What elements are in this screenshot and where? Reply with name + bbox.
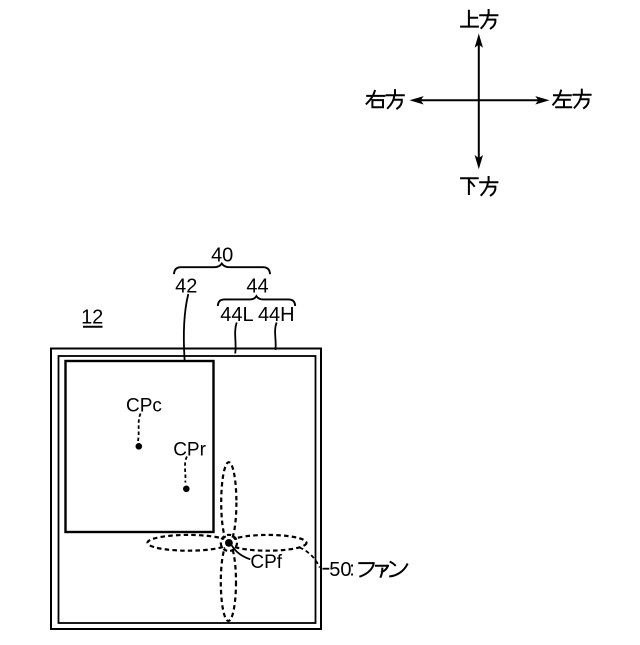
fan 50 petal left (dashed ellipse)	[148, 535, 229, 551]
svg-text:CPr: CPr	[173, 439, 206, 460]
fan 50 petal down (dashed ellipse)	[221, 543, 236, 621]
compass vertical arrow (up/down)	[475, 34, 483, 170]
leader CPf	[232, 545, 251, 559]
svg-text:CPf: CPf	[250, 552, 282, 573]
fan 50 petal right (dashed ellipse)	[229, 535, 307, 551]
label 左方 (left side, at right)	[553, 90, 590, 108]
svg-text::: :	[349, 558, 355, 580]
svg-text:42: 42	[175, 275, 197, 297]
point CPc	[136, 443, 143, 450]
housing 12 inner rectangle	[59, 356, 316, 623]
svg-text:44: 44	[246, 275, 268, 297]
brace under 44	[218, 296, 295, 306]
leader CPr (dashed)	[185, 457, 187, 483]
leader CPc (dashed)	[138, 414, 141, 442]
svg-text:12: 12	[81, 307, 103, 329]
svg-text:CPc: CPc	[126, 395, 162, 416]
dash before 50	[323, 568, 330, 570]
rectangle 42	[66, 361, 214, 532]
point CPf (fan center)	[225, 539, 233, 547]
label 下方 (down)	[461, 177, 497, 195]
housing 12 outer rectangle	[51, 349, 321, 630]
compass horizontal arrow (left/right)	[410, 96, 550, 104]
point CPr	[183, 486, 190, 493]
leader 50 (dashed)	[300, 548, 320, 568]
fan 50 petal up (dashed ellipse)	[221, 462, 236, 543]
label 上方 (up)	[461, 10, 497, 28]
label 右方 (right side, at left)	[367, 90, 404, 108]
brace under 40	[174, 264, 270, 275]
leader 42	[184, 294, 189, 360]
fan hub white gap	[223, 537, 235, 549]
leader 44L	[235, 323, 237, 354]
svg-text:50: 50	[329, 559, 351, 581]
leader 44H	[275, 323, 277, 351]
fan hub dashed circle	[221, 535, 237, 551]
